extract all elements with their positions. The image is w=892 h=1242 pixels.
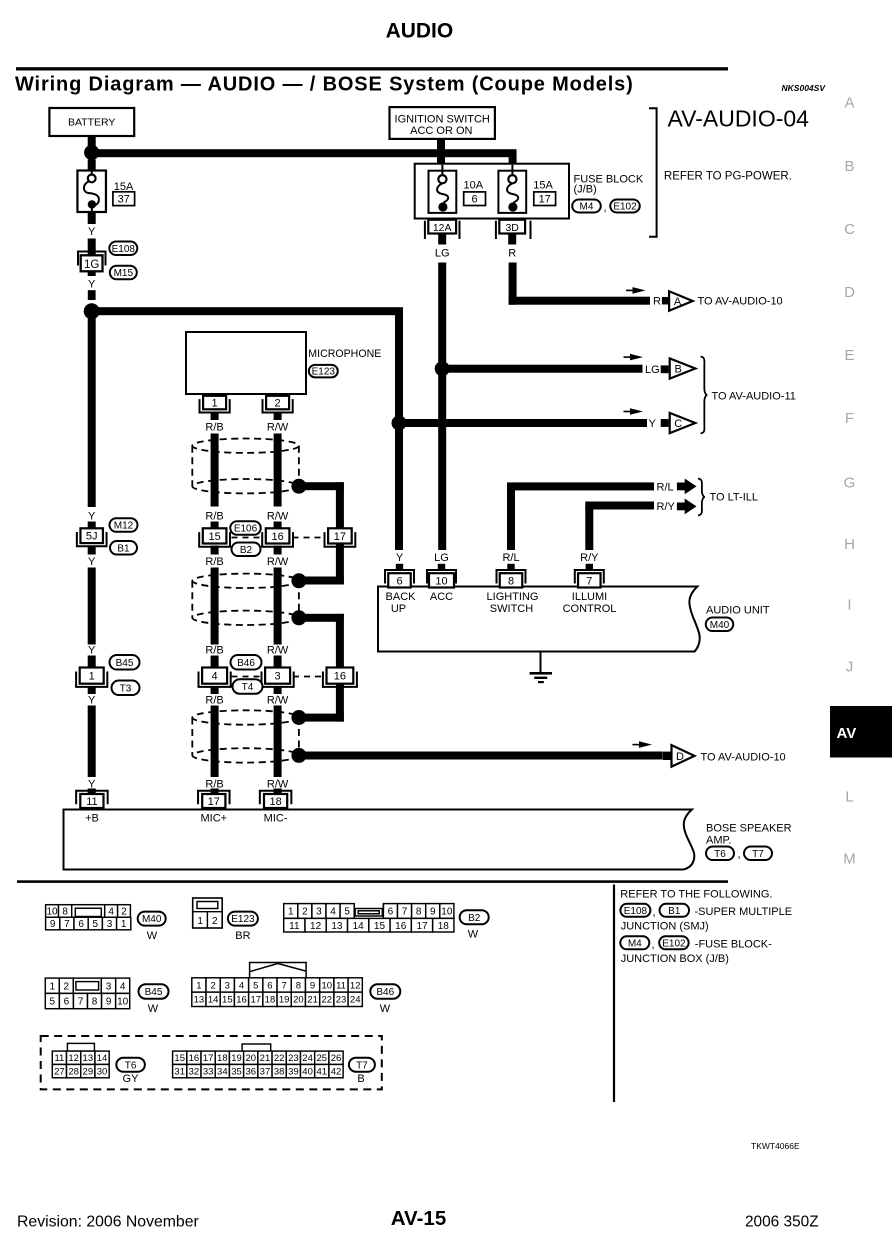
- svg-text:17: 17: [539, 194, 551, 206]
- svg-text:10: 10: [46, 907, 58, 918]
- svg-text:M: M: [843, 850, 856, 867]
- svg-text:+B: +B: [85, 813, 99, 825]
- svg-text:33: 33: [203, 1067, 214, 1078]
- svg-text:7: 7: [586, 575, 592, 587]
- svg-text:TO AV-AUDIO-11: TO AV-AUDIO-11: [712, 391, 796, 403]
- svg-text:9: 9: [430, 907, 436, 918]
- svg-text:W: W: [148, 1003, 159, 1015]
- svg-text:GY: GY: [123, 1073, 140, 1085]
- svg-text:5: 5: [93, 919, 99, 930]
- svg-text:(J/B): (J/B): [574, 184, 597, 196]
- svg-text:30: 30: [97, 1067, 108, 1078]
- svg-text:2: 2: [64, 981, 70, 992]
- svg-text:11: 11: [86, 796, 97, 808]
- svg-text:10: 10: [322, 980, 333, 991]
- svg-text:40: 40: [302, 1067, 313, 1078]
- svg-text:M15: M15: [114, 268, 134, 279]
- svg-text:Y: Y: [88, 511, 96, 523]
- svg-text:16: 16: [189, 1053, 200, 1064]
- svg-text:G: G: [844, 474, 856, 491]
- svg-text:3: 3: [107, 919, 113, 930]
- svg-text:TO AV-AUDIO-10: TO AV-AUDIO-10: [698, 296, 783, 308]
- svg-text:39: 39: [288, 1067, 299, 1078]
- svg-text:ACC: ACC: [430, 591, 453, 603]
- svg-text:TKWT4066E: TKWT4066E: [751, 1141, 800, 1151]
- svg-text:5J: 5J: [86, 531, 98, 543]
- svg-text:16: 16: [236, 995, 247, 1006]
- svg-text:I: I: [847, 596, 851, 613]
- svg-text:14: 14: [208, 995, 219, 1006]
- svg-text:20: 20: [293, 995, 304, 1006]
- svg-text:Wiring Diagram — AUDIO — / BOS: Wiring Diagram — AUDIO — / BOSE System (…: [15, 74, 634, 96]
- svg-text:2: 2: [212, 916, 218, 927]
- svg-text:B2: B2: [240, 545, 253, 556]
- svg-text:B1: B1: [668, 906, 681, 917]
- svg-text:1: 1: [212, 398, 218, 410]
- svg-text:R/Y: R/Y: [657, 501, 676, 513]
- svg-text:28: 28: [68, 1067, 79, 1078]
- svg-text:29: 29: [83, 1067, 94, 1078]
- svg-text:A: A: [844, 94, 854, 111]
- svg-text:22: 22: [274, 1053, 285, 1064]
- svg-text:41: 41: [317, 1067, 328, 1078]
- svg-text:8: 8: [296, 980, 301, 991]
- svg-text:A: A: [674, 296, 682, 308]
- svg-text:LG: LG: [434, 552, 449, 564]
- svg-text:6: 6: [396, 575, 402, 587]
- svg-text:1G: 1G: [84, 259, 99, 271]
- svg-text:14: 14: [97, 1053, 108, 1064]
- svg-text:1: 1: [89, 671, 95, 683]
- svg-text:12: 12: [68, 1053, 79, 1064]
- svg-text:15A: 15A: [533, 180, 553, 192]
- svg-text:17: 17: [203, 1053, 214, 1064]
- svg-text:MIC+: MIC+: [201, 813, 228, 825]
- svg-text:11: 11: [336, 980, 346, 991]
- svg-text:17: 17: [208, 796, 220, 808]
- svg-text:1: 1: [288, 907, 294, 918]
- svg-text:15: 15: [208, 531, 220, 543]
- svg-text:AV-AUDIO-04: AV-AUDIO-04: [668, 105, 810, 131]
- svg-text:21: 21: [260, 1053, 271, 1064]
- svg-text:BACK: BACK: [386, 591, 417, 603]
- svg-text:C: C: [674, 418, 682, 430]
- svg-text:MIC-: MIC-: [264, 813, 288, 825]
- svg-text:T4: T4: [242, 682, 254, 693]
- svg-text:24: 24: [302, 1053, 313, 1064]
- svg-text:R/B: R/B: [205, 556, 223, 568]
- svg-text:REFER TO PG-POWER.: REFER TO PG-POWER.: [664, 171, 792, 183]
- svg-text:H: H: [844, 536, 855, 553]
- svg-text:13: 13: [83, 1053, 94, 1064]
- svg-text:Y: Y: [88, 695, 96, 707]
- svg-text:31: 31: [174, 1067, 185, 1078]
- svg-text:12A: 12A: [433, 222, 452, 234]
- svg-text:JUNCTION (SMJ): JUNCTION (SMJ): [621, 921, 709, 933]
- svg-text:7: 7: [78, 997, 84, 1008]
- svg-text:C: C: [844, 221, 855, 238]
- svg-text:R/W: R/W: [267, 695, 289, 707]
- svg-text:Y: Y: [88, 279, 96, 291]
- svg-text:E106: E106: [234, 524, 258, 535]
- svg-text:B: B: [844, 158, 854, 175]
- svg-text:3: 3: [225, 980, 230, 991]
- svg-text:,: ,: [652, 939, 655, 951]
- svg-text:4: 4: [239, 980, 244, 991]
- svg-text:26: 26: [331, 1053, 342, 1064]
- svg-text:M4: M4: [580, 202, 594, 213]
- svg-text:R/W: R/W: [267, 645, 289, 657]
- svg-text:6: 6: [78, 919, 84, 930]
- svg-text:M12: M12: [114, 521, 134, 532]
- svg-text:5: 5: [253, 980, 258, 991]
- svg-text:12: 12: [350, 980, 361, 991]
- svg-text:17: 17: [416, 921, 428, 932]
- svg-text:T7: T7: [752, 849, 764, 860]
- svg-text:23: 23: [288, 1053, 299, 1064]
- svg-text:4: 4: [120, 981, 126, 992]
- svg-text:1: 1: [197, 916, 203, 927]
- svg-text:R/W: R/W: [267, 422, 289, 434]
- svg-text:5: 5: [344, 907, 350, 918]
- svg-text:BR: BR: [235, 930, 250, 942]
- svg-text:AMP.: AMP.: [706, 835, 731, 847]
- svg-text:E102: E102: [613, 202, 637, 213]
- svg-text:37: 37: [118, 194, 130, 206]
- svg-text:T6: T6: [125, 1060, 137, 1071]
- svg-text:E102: E102: [662, 938, 686, 949]
- svg-text:Y: Y: [88, 226, 96, 238]
- svg-text:R: R: [653, 296, 661, 308]
- svg-text:-FUSE BLOCK-: -FUSE BLOCK-: [695, 939, 772, 951]
- svg-text:10: 10: [117, 997, 129, 1008]
- svg-text:17: 17: [250, 995, 261, 1006]
- svg-text:R/L: R/L: [657, 482, 674, 494]
- svg-text:20: 20: [245, 1053, 256, 1064]
- svg-text:19: 19: [231, 1053, 242, 1064]
- svg-text:1: 1: [196, 980, 201, 991]
- svg-text:1: 1: [50, 981, 56, 992]
- svg-text:W: W: [468, 929, 479, 941]
- svg-text:AV: AV: [837, 725, 857, 742]
- svg-text:23: 23: [336, 995, 347, 1006]
- svg-text:JUNCTION BOX (J/B): JUNCTION BOX (J/B): [621, 953, 729, 965]
- svg-text:6: 6: [267, 980, 272, 991]
- svg-text:BATTERY: BATTERY: [68, 117, 115, 129]
- svg-text:Y: Y: [88, 645, 96, 657]
- svg-text:R/L: R/L: [502, 552, 519, 564]
- svg-text:W: W: [147, 930, 158, 942]
- svg-text:16: 16: [271, 531, 283, 543]
- svg-text:AV-15: AV-15: [391, 1207, 446, 1230]
- svg-text:J: J: [846, 658, 854, 675]
- svg-text:25: 25: [317, 1053, 328, 1064]
- svg-text:13: 13: [331, 921, 343, 932]
- svg-text:R/Y: R/Y: [580, 552, 599, 564]
- svg-text:19: 19: [279, 995, 290, 1006]
- svg-text:E123: E123: [231, 914, 255, 925]
- svg-text:14: 14: [353, 921, 365, 932]
- svg-text:Revision: 2006 November: Revision: 2006 November: [17, 1214, 199, 1231]
- svg-text:32: 32: [189, 1067, 200, 1078]
- svg-text:Y: Y: [649, 418, 657, 430]
- svg-text:15: 15: [374, 921, 386, 932]
- svg-text:LG: LG: [645, 364, 660, 376]
- svg-text:B: B: [675, 364, 682, 376]
- svg-text:M40: M40: [710, 620, 730, 631]
- svg-text:18: 18: [269, 796, 281, 808]
- svg-text:2: 2: [121, 907, 127, 918]
- svg-text:4: 4: [330, 907, 336, 918]
- svg-text:2: 2: [302, 907, 308, 918]
- svg-text:3: 3: [316, 907, 322, 918]
- svg-text:11: 11: [54, 1053, 64, 1064]
- svg-text:13: 13: [194, 995, 205, 1006]
- svg-text:15: 15: [174, 1053, 185, 1064]
- svg-text:2: 2: [210, 980, 215, 991]
- svg-text:6: 6: [64, 997, 70, 1008]
- svg-text:4: 4: [212, 671, 218, 683]
- svg-text:B: B: [357, 1073, 364, 1085]
- svg-text:R/B: R/B: [205, 422, 223, 434]
- svg-text:R/W: R/W: [267, 556, 289, 568]
- svg-text:38: 38: [274, 1067, 285, 1078]
- svg-text:8: 8: [92, 997, 98, 1008]
- svg-text:2: 2: [275, 398, 281, 410]
- svg-text:3: 3: [275, 671, 281, 683]
- svg-text:9: 9: [310, 980, 315, 991]
- svg-text:NKS004SV: NKS004SV: [782, 83, 827, 93]
- svg-text:2006 350Z: 2006 350Z: [745, 1214, 819, 1231]
- svg-text:E123: E123: [312, 367, 336, 378]
- svg-text:27: 27: [54, 1067, 65, 1078]
- svg-text:3D: 3D: [505, 222, 519, 234]
- svg-text:6: 6: [388, 907, 394, 918]
- svg-text:R/W: R/W: [267, 511, 289, 523]
- svg-text:10: 10: [441, 907, 453, 918]
- svg-text:10: 10: [435, 575, 447, 587]
- svg-text:35: 35: [231, 1067, 242, 1078]
- svg-text:M40: M40: [142, 914, 162, 925]
- svg-text:R/B: R/B: [205, 645, 223, 657]
- svg-text:R/B: R/B: [205, 511, 223, 523]
- svg-text:ACC OR ON: ACC OR ON: [410, 125, 472, 137]
- svg-text:9: 9: [106, 997, 112, 1008]
- svg-text:T6: T6: [714, 849, 726, 860]
- svg-text:B46: B46: [376, 987, 394, 998]
- svg-text:LIGHTING: LIGHTING: [487, 591, 539, 603]
- svg-text:17: 17: [334, 531, 346, 543]
- svg-text:Y: Y: [88, 556, 96, 568]
- svg-text:,: ,: [653, 907, 656, 919]
- svg-text:3: 3: [106, 981, 112, 992]
- svg-text:L: L: [845, 788, 853, 805]
- svg-text:SWITCH: SWITCH: [490, 603, 533, 615]
- svg-text:LG: LG: [435, 248, 450, 260]
- svg-text:CONTROL: CONTROL: [563, 603, 617, 615]
- svg-text:24: 24: [350, 995, 361, 1006]
- svg-text:16: 16: [334, 671, 346, 683]
- svg-text:36: 36: [245, 1067, 256, 1078]
- svg-text:IGNITION SWITCH: IGNITION SWITCH: [395, 114, 490, 126]
- svg-text:22: 22: [322, 995, 333, 1006]
- svg-text:B45: B45: [145, 987, 163, 998]
- svg-text:10A: 10A: [464, 180, 484, 192]
- svg-text:15: 15: [222, 995, 233, 1006]
- svg-text:AUDIO UNIT: AUDIO UNIT: [706, 605, 770, 617]
- svg-text:D: D: [676, 751, 684, 763]
- svg-text:B45: B45: [116, 658, 134, 669]
- svg-text:7: 7: [64, 919, 70, 930]
- svg-text:W: W: [380, 1003, 391, 1015]
- svg-text:R: R: [508, 248, 516, 260]
- svg-text:E108: E108: [112, 244, 136, 255]
- svg-text:TO AV-AUDIO-10: TO AV-AUDIO-10: [701, 752, 786, 764]
- svg-text:18: 18: [438, 921, 450, 932]
- svg-text:34: 34: [217, 1067, 228, 1078]
- svg-text:42: 42: [331, 1067, 342, 1078]
- svg-text:UP: UP: [391, 603, 406, 615]
- svg-text:11: 11: [289, 921, 300, 932]
- svg-text:8: 8: [416, 907, 422, 918]
- svg-text:D: D: [844, 284, 855, 301]
- svg-text:T3: T3: [120, 683, 132, 694]
- svg-text:E108: E108: [624, 906, 648, 917]
- svg-text:B1: B1: [117, 543, 130, 554]
- svg-text:8: 8: [62, 907, 68, 918]
- svg-text:16: 16: [395, 921, 407, 932]
- svg-text:MICROPHONE: MICROPHONE: [308, 348, 381, 360]
- svg-text:4: 4: [108, 907, 114, 918]
- svg-text:BOSE SPEAKER: BOSE SPEAKER: [706, 823, 792, 835]
- svg-text:REFER TO THE FOLLOWING.: REFER TO THE FOLLOWING.: [620, 889, 772, 901]
- svg-text:7: 7: [282, 980, 287, 991]
- svg-text:1: 1: [121, 919, 127, 930]
- svg-text:M4: M4: [628, 938, 642, 949]
- svg-text:-SUPER MULTIPLE: -SUPER MULTIPLE: [695, 906, 793, 918]
- svg-text:B46: B46: [237, 658, 255, 669]
- svg-text:R/B: R/B: [205, 695, 223, 707]
- svg-text:18: 18: [217, 1053, 228, 1064]
- svg-text:37: 37: [260, 1067, 271, 1078]
- svg-text:5: 5: [50, 997, 56, 1008]
- svg-text:,: ,: [738, 849, 741, 861]
- svg-text:9: 9: [50, 919, 56, 930]
- svg-text:6: 6: [472, 194, 478, 206]
- svg-text:AUDIO: AUDIO: [386, 20, 454, 43]
- svg-text:18: 18: [265, 995, 276, 1006]
- svg-text:21: 21: [307, 995, 318, 1006]
- svg-text:B2: B2: [468, 913, 481, 924]
- svg-text:TO LT-ILL: TO LT-ILL: [710, 492, 759, 504]
- svg-text:7: 7: [402, 907, 408, 918]
- svg-text:8: 8: [508, 575, 514, 587]
- svg-text:T7: T7: [356, 1060, 368, 1071]
- svg-text:12: 12: [310, 921, 322, 932]
- svg-text:Y: Y: [396, 552, 404, 564]
- svg-text:E: E: [844, 347, 854, 364]
- svg-text:F: F: [845, 410, 854, 427]
- svg-text:ILLUMI: ILLUMI: [572, 591, 607, 603]
- svg-text:,: ,: [604, 202, 607, 214]
